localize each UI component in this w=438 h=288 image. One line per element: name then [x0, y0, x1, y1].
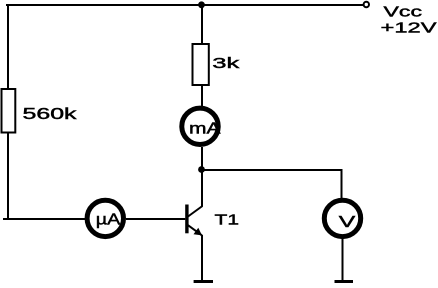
wire emitter to ground [201, 235, 203, 282]
wire bottom left horizontal [3, 218, 85, 220]
transistor Q1 collector diagonal [188, 206, 202, 217]
transistor Q1 emitter diagonal [188, 225, 202, 235]
terminal Vcc [364, 2, 369, 7]
svg-text:µA: µA [96, 212, 121, 229]
wire resistor to ammeter [201, 85, 203, 107]
wire base [126, 218, 185, 220]
voltmeter U3 V [324, 200, 360, 236]
wire voltmeter to ground [342, 239, 344, 282]
svg-text:560k: 560k [23, 106, 77, 123]
node junction collector [198, 166, 205, 173]
resistor R2 3k [193, 44, 209, 85]
wire collector column upper [201, 5, 203, 45]
wire left vertical upper [7, 4, 9, 90]
node junction top [198, 1, 205, 8]
ground emitter [194, 280, 213, 283]
svg-text:+12V: +12V [381, 20, 437, 37]
wire left vertical lower [7, 132, 9, 220]
svg-text:Vcc: Vcc [384, 3, 423, 20]
wire branch to voltmeter vertical [341, 169, 343, 199]
wire branch to voltmeter horizontal [202, 169, 342, 171]
transistor Q1 emitter arrow [194, 228, 203, 236]
resistor R1 560k [2, 89, 16, 133]
wire ammeter to collector [201, 147, 203, 207]
svg-text:3k: 3k [212, 55, 240, 72]
transistor Q1 base bar [185, 205, 188, 234]
svg-text:T1: T1 [215, 211, 240, 228]
ammeter U1 mA [182, 108, 218, 144]
ground voltmeter [335, 280, 354, 283]
microammeter U2 uA [87, 200, 123, 236]
wire top rail [6, 4, 363, 6]
svg-text:mA: mA [189, 121, 221, 138]
svg-text:V: V [339, 214, 356, 231]
